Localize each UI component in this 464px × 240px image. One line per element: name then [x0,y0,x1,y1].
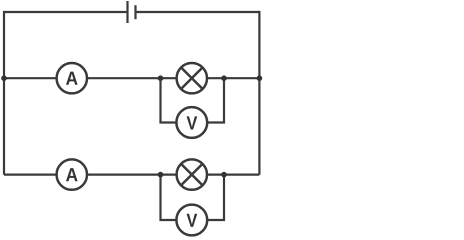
wire battery to top-right corner [136,11,260,13]
node right branch 1 [257,75,263,81]
lamp L2 [177,159,207,189]
wire voltmeter 1 loop [161,78,225,122]
lamp L1 [177,63,207,93]
node lamp 1 left [158,75,164,81]
wire voltmeter 2 loop [161,175,225,220]
wire left vertical [3,11,5,175]
node lamp 1 right [221,75,227,81]
ammeter A1 [57,63,87,93]
voltmeter V1 [176,107,207,138]
wire branch 1 horizontal [4,77,259,79]
node lamp 2 left [158,172,164,178]
wire right vertical [258,11,260,175]
wire top-left segment to battery [4,11,126,13]
node lamp 2 right [221,172,227,178]
cell (battery) [128,1,136,23]
ammeter A2 [57,159,87,189]
wire branch 2 horizontal [4,174,259,176]
node left branch 1 [1,75,7,81]
voltmeter V2 [176,205,207,236]
